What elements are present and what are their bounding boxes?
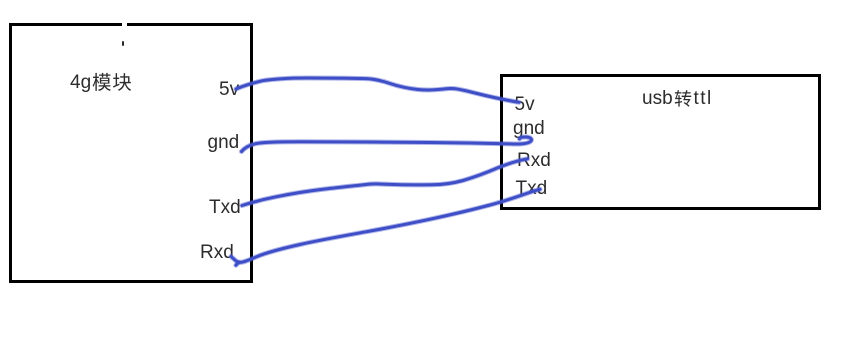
pin Txd (right box) <box>516 179 548 198</box>
wire Txd (left) to Rxd (right) <box>242 159 528 206</box>
pin Rxd (left box) <box>200 243 234 262</box>
wire 5v (left) to 5v (right) <box>236 78 519 102</box>
pin gnd (right box) <box>513 119 545 138</box>
CJK glyph 块 (of 4g模块) <box>113 73 131 91</box>
pin gnd (left box) <box>208 133 240 152</box>
label: 4g (latin part of 4g模块) <box>70 73 91 92</box>
pin Txd (left box) <box>209 198 241 217</box>
label: usb (latin part of usb转ttl) <box>642 89 673 108</box>
CJK glyph 模 (of 4g模块) <box>93 73 111 91</box>
pin 5v (left box) <box>219 80 239 99</box>
module box: 4g module (left) <box>9 23 253 283</box>
spike at Rxd wire start <box>236 262 239 265</box>
pin Rxd (right box) <box>517 151 551 170</box>
label: ttl (latin part of usb转ttl) <box>694 89 713 108</box>
module box: usb to ttl (right) <box>500 74 821 210</box>
wire gnd (left) to gnd (right) <box>242 137 532 152</box>
pin 5v (right box) <box>515 95 535 114</box>
CJK glyph 转 (of usb转ttl) <box>675 90 692 107</box>
stray ink dot below top border gap <box>122 41 125 46</box>
wire Rxd (left) to Txd (right) <box>231 189 540 262</box>
gap in top border of 4g module box <box>122 22 127 28</box>
